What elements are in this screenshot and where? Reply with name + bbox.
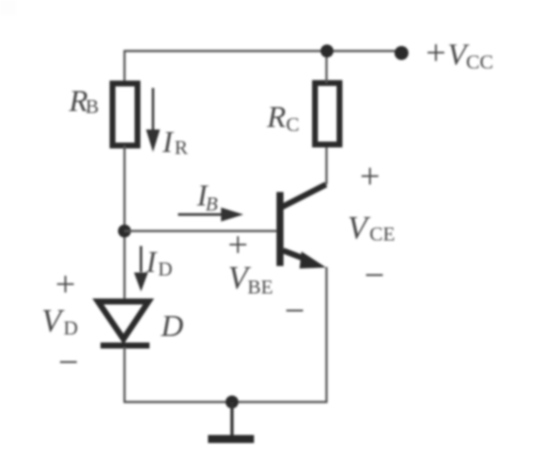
corner tint (0, 0, 16, 15)
svg-text:R: R (266, 99, 286, 134)
svg-text:D: D (160, 308, 183, 343)
current arrow IR (146, 88, 160, 152)
transistor Q1 collector stroke (281, 185, 326, 208)
svg-text:+: + (360, 156, 380, 196)
current arrow ID (134, 246, 148, 292)
svg-text:−: − (58, 342, 78, 382)
svg-text:−: − (285, 291, 305, 331)
wire: left branch middle (RB to diode) (123, 146, 125, 302)
svg-text:V: V (42, 304, 65, 340)
wire: bottom rail (124, 401, 328, 403)
svg-text:B: B (206, 194, 218, 216)
wire: right branch top (rail to RC) (325, 50, 327, 83)
svg-text:R: R (175, 137, 189, 159)
diode D (98, 302, 150, 346)
svg-text:C: C (286, 114, 299, 136)
terminal dot VCC (395, 46, 409, 60)
svg-text:D: D (158, 259, 172, 281)
transistor Q1 emitter stroke with arrow (283, 251, 304, 259)
transistor Q1 base bar (277, 192, 284, 266)
svg-text:B: B (86, 96, 99, 118)
svg-text:V: V (348, 211, 371, 247)
resistor RC (315, 83, 340, 145)
wire: collector vertical (325, 145, 327, 185)
wire: left branch top (rail to RB) (123, 50, 125, 83)
svg-text:+: + (228, 225, 248, 265)
junction dot top rail (321, 45, 334, 58)
wire: left branch bottom (diode to bottom rail) (123, 347, 125, 402)
svg-text:+: + (55, 264, 75, 304)
wire: base wire (125, 230, 278, 232)
svg-text:I: I (162, 124, 175, 159)
svg-text:D: D (64, 318, 78, 340)
resistor RB (113, 84, 138, 146)
svg-text:−: − (364, 255, 384, 295)
wire: emitter vertical down to bottom rail (325, 267, 327, 402)
ground (230, 402, 233, 435)
svg-text:+: + (426, 33, 446, 73)
svg-text:CC: CC (466, 52, 493, 74)
svg-text:BE: BE (248, 277, 274, 299)
wire: top rail from left branch to VCC terminal (125, 50, 402, 52)
node B junction dot (118, 225, 131, 238)
current arrow IB (178, 208, 244, 222)
svg-text:I: I (145, 244, 158, 279)
junction dot bottom rail (226, 396, 239, 409)
svg-text:CE: CE (370, 224, 396, 246)
